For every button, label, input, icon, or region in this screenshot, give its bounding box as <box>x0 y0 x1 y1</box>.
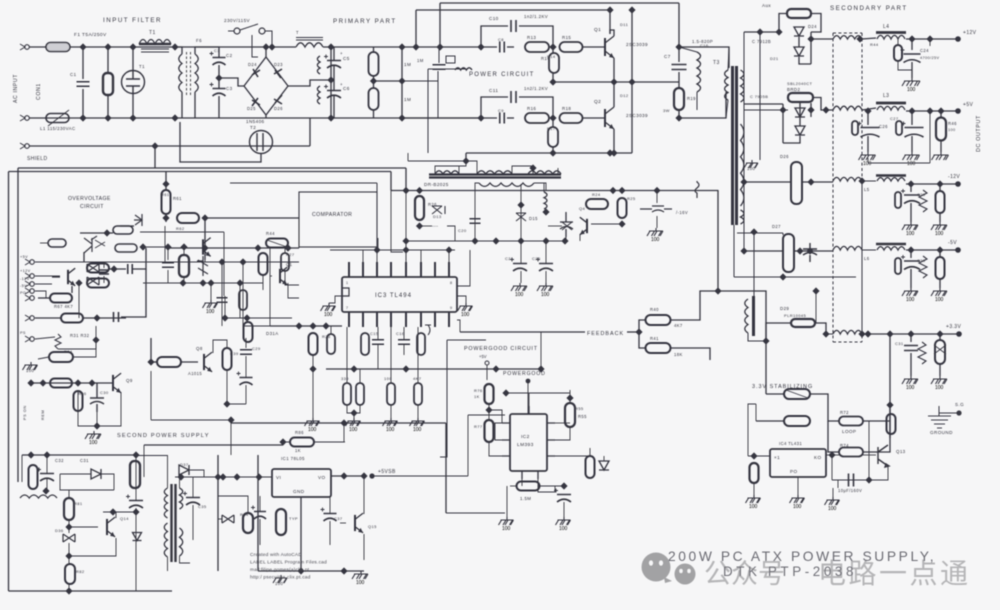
wire C41 gnd <box>867 136 869 152</box>
output +3.3V terminal <box>956 331 962 337</box>
winding T3 sec1 <box>741 70 744 102</box>
resistor R65 box <box>115 244 137 252</box>
wire D35 wires <box>60 473 91 475</box>
svg-text:PLR10045: PLR10045 <box>784 313 806 318</box>
wire Q1 collector feed <box>609 10 611 34</box>
wire T4 sec top <box>179 477 181 488</box>
wire R58 bot <box>183 277 185 283</box>
svg-text:T1: T1 <box>149 30 156 36</box>
svg-text:REM: REM <box>41 410 45 420</box>
wire c37b <box>329 521 331 545</box>
winding L4 <box>877 35 905 39</box>
ground -5V b <box>931 288 947 303</box>
wire y420 row <box>151 419 231 421</box>
svg-text:T2: T2 <box>250 125 256 130</box>
svg-text:IC1 78L05: IC1 78L05 <box>281 456 305 461</box>
node y369 d <box>537 365 544 372</box>
svg-text:100: 100 <box>793 504 802 510</box>
node y110 x783 <box>779 106 786 113</box>
label pin9 <box>450 306 452 310</box>
diode DA mark <box>425 325 431 335</box>
svg-text:R13: R13 <box>527 35 536 40</box>
wire T3 primary top <box>728 47 729 70</box>
wire top rail y3 <box>440 2 679 4</box>
label -5V <box>948 240 957 246</box>
resistor R40 <box>646 315 671 325</box>
wire bridge top to rail <box>265 47 267 57</box>
label v47 <box>240 512 249 517</box>
svg-text:IC4 TL431: IC4 TL431 <box>779 441 802 446</box>
label R44 <box>266 231 275 236</box>
node C11 left <box>477 114 484 121</box>
svg-text:R62: R62 <box>176 226 185 231</box>
wire R67 right <box>71 286 73 293</box>
svg-text:18K: 18K <box>674 352 683 357</box>
logo WeChat watermark <box>642 553 696 585</box>
label v21 <box>917 258 926 263</box>
wire R73 right <box>755 404 757 421</box>
node y455 b <box>43 451 50 458</box>
node y251 x744 <box>740 247 747 254</box>
wire row5 entry <box>826 333 833 335</box>
winding T4 sec b <box>180 528 183 556</box>
wire R14 top <box>552 47 554 53</box>
label KO pin <box>814 455 821 460</box>
node x113 y512 <box>109 508 116 515</box>
wire y241 link2 <box>406 240 475 242</box>
resistor R45b <box>259 253 268 275</box>
svg-text:230V/115V: 230V/115V <box>224 18 251 23</box>
wire R17 bottom <box>552 147 554 153</box>
label C2 <box>226 53 233 58</box>
choke core bars <box>296 38 323 41</box>
node C41 <box>864 107 871 114</box>
wire rail drop x440 <box>439 3 441 47</box>
svg-text:L1 115/230VAC: L1 115/230VAC <box>40 126 76 131</box>
winding T1b right <box>195 54 198 92</box>
wire shield <box>29 145 310 147</box>
wire T5 top <box>753 232 755 296</box>
node +5V b <box>926 107 933 114</box>
svg-text:L6: L6 <box>864 256 870 261</box>
node x69 y591 <box>65 587 72 594</box>
wire y251 right <box>794 250 833 252</box>
wire C50 right <box>133 248 146 269</box>
box powergood outline <box>440 340 486 457</box>
wire TH1 top lead <box>132 47 134 71</box>
wire x869 col <box>868 421 870 480</box>
wire R39 bot <box>226 370 228 404</box>
wire Q10 link <box>83 252 85 262</box>
wire x313 col <box>312 369 314 418</box>
svg-text:100: 100 <box>749 504 758 510</box>
zener D36 <box>63 534 75 542</box>
wire pg dot to IC2 <box>527 381 529 414</box>
wire C7 top lead <box>678 47 680 62</box>
label D27 <box>772 224 781 229</box>
node powergood dot <box>526 379 531 384</box>
node y326 b <box>309 322 316 329</box>
resistor R41 <box>646 343 671 353</box>
wire pin stub a <box>362 250 364 262</box>
wire D30 wire <box>120 225 134 227</box>
resistor R mini row2a <box>852 121 858 135</box>
svg-text:AC INPUT: AC INPUT <box>13 74 19 103</box>
inductor L4 <box>876 31 906 34</box>
node -12V a <box>907 180 914 187</box>
wire y383 row <box>31 382 113 384</box>
wire ic2 bot pin2 <box>538 479 564 492</box>
label R86 <box>295 430 304 435</box>
svg-text:100: 100 <box>907 87 916 93</box>
wire T1a bottom <box>181 92 183 118</box>
wire c15b <box>377 344 379 369</box>
wire r27 b <box>285 271 299 285</box>
label R13 <box>527 35 536 40</box>
node y262 b <box>239 258 246 265</box>
svg-text:100: 100 <box>324 312 333 318</box>
node y241 a <box>471 237 478 244</box>
svg-text:R72: R72 <box>840 410 849 415</box>
wire R33 wire <box>35 337 55 339</box>
label v4 <box>340 82 343 87</box>
wire D35 right <box>101 474 114 490</box>
winding L2 row3 <box>833 177 862 181</box>
capacitor C35 <box>183 492 200 506</box>
resistor R61 <box>162 190 171 214</box>
svg-text:+3.3V: +3.3V <box>946 324 961 330</box>
label pin8 <box>450 281 452 285</box>
svg-text:×1: ×1 <box>774 455 780 460</box>
svg-text:2SC3039: 2SC3039 <box>626 113 648 118</box>
node y182 x744 <box>740 178 747 185</box>
wire c29 w <box>245 338 247 348</box>
wire c15 <box>377 327 379 339</box>
node y334 x940 <box>936 330 943 337</box>
svg-text:FEEDBACK: FEEDBACK <box>587 331 624 337</box>
wire R76 R77 <box>488 404 490 420</box>
svg-text:L5: L5 <box>864 187 870 192</box>
zener D38 <box>222 515 234 523</box>
output +5V terminal <box>955 108 961 114</box>
label R41 <box>650 336 659 341</box>
wire loop q9 <box>78 392 121 426</box>
resistor R85 <box>276 509 286 535</box>
svg-text:R28: R28 <box>322 334 331 339</box>
svg-text:SECONDARY PART: SECONDARY PART <box>830 5 908 12</box>
wire R14 bottom <box>552 73 554 82</box>
wire R41 left <box>639 332 645 348</box>
node R55 mid <box>566 394 573 401</box>
svg-text:C 7912B: C 7912B <box>752 39 771 44</box>
label pin PG <box>20 291 26 295</box>
resistor R66 <box>48 239 66 247</box>
wire ra gnd <box>353 413 355 418</box>
node R62 right <box>201 214 208 221</box>
wire ra top <box>346 327 348 383</box>
svg-text:C2: C2 <box>226 53 233 58</box>
svg-text:100: 100 <box>651 237 660 243</box>
wire y393 row <box>506 392 570 394</box>
svg-text:ˉˉˉˉ: ˉˉˉˉ <box>430 226 438 232</box>
pin +5V powergood <box>485 361 489 365</box>
label D25 <box>247 106 256 111</box>
svg-text:T: T <box>296 30 299 35</box>
wire R77 bot <box>489 442 502 456</box>
svg-text:Q4: Q4 <box>579 206 586 211</box>
label v17 <box>890 116 899 121</box>
wire IC1 in <box>258 476 272 478</box>
wire C10 loop right <box>519 26 553 47</box>
ground rc <box>383 418 398 433</box>
resistor R74 <box>839 448 863 457</box>
wire row2 leftw <box>821 109 833 111</box>
svg-text:C16: C16 <box>396 331 405 336</box>
node y251 x800 <box>796 247 803 254</box>
label R76 <box>474 388 483 393</box>
wire c36 <box>259 496 261 511</box>
svg-text:200W PC ATX POWER SUPPLY,: 200W PC ATX POWER SUPPLY, <box>668 549 936 564</box>
fuse FP jumper <box>695 181 699 198</box>
svg-text:100: 100 <box>906 297 915 303</box>
node x218 y477 <box>214 473 221 480</box>
svg-text:C31: C31 <box>80 458 89 463</box>
resistor R86 <box>290 438 314 447</box>
wire 5vsb to right <box>372 475 468 477</box>
label Q2 <box>594 99 601 105</box>
wire tap ext <box>402 80 438 82</box>
wire C47 gnd <box>910 353 912 376</box>
resistor R59 <box>244 322 253 342</box>
label T1 <box>149 30 156 36</box>
inductor L6 <box>876 243 906 246</box>
output -12V terminal <box>955 181 961 187</box>
transistor Q2 power <box>605 107 614 129</box>
wire x22 col <box>21 455 23 482</box>
label v40 <box>230 351 239 356</box>
label pin +12V <box>20 269 31 273</box>
wire x868 drop <box>867 158 869 163</box>
svg-text:2SC3039: 2SC3039 <box>626 42 648 47</box>
wire C1 bottom lead <box>82 89 84 118</box>
label gnd r34 <box>26 368 34 373</box>
node x136 y512 <box>132 508 139 515</box>
label PRIMARY PART <box>333 18 397 25</box>
node y47 x679 <box>675 43 682 50</box>
wire T4 sec mid <box>180 556 191 563</box>
node rail-402 <box>398 43 405 50</box>
wire x218 col <box>217 455 219 571</box>
wire y277 bus <box>734 276 856 278</box>
resistor R46 <box>936 118 946 141</box>
svg-text:/-16V: /-16V <box>676 210 688 215</box>
wire r57 left <box>510 485 516 487</box>
label pin -12V <box>20 277 30 281</box>
label VI <box>276 475 281 480</box>
wire ovp bus <box>164 226 166 262</box>
capacitor C16 <box>398 340 410 345</box>
label R19 <box>687 96 696 101</box>
resistor R72 <box>839 417 863 426</box>
box comparator outline <box>299 192 377 247</box>
wire R46 lead <box>940 111 942 118</box>
wire y232 upper <box>140 231 224 233</box>
resistor R36 <box>74 391 83 411</box>
label v10 <box>620 22 629 27</box>
node y369 c <box>492 365 499 372</box>
svg-text:R19: R19 <box>687 96 696 101</box>
wire x489 to IC2 <box>489 410 502 423</box>
wire Q1 collector <box>610 30 614 36</box>
svg-text:R34: R34 <box>64 349 73 354</box>
transistor Q11 <box>68 268 75 286</box>
IC3 notch <box>342 288 349 296</box>
wire r57 right <box>540 485 564 487</box>
resistor R34 <box>49 352 73 362</box>
wire bottom border <box>9 590 173 592</box>
winding input choke standby <box>20 495 57 498</box>
wire c16b <box>403 344 405 355</box>
node x832 y455 <box>828 451 835 458</box>
node y291 x816 <box>812 287 819 294</box>
svg-text:1K: 1K <box>474 394 480 399</box>
winding L2 row4 <box>833 246 862 250</box>
node y247 b <box>164 243 171 250</box>
capacitor C31a <box>237 372 253 386</box>
svg-text:100: 100 <box>935 297 944 303</box>
label R86v <box>295 448 301 453</box>
node +5V a <box>908 107 915 114</box>
svg-text:R40: R40 <box>650 307 659 312</box>
capacitor C11 <box>511 91 516 103</box>
wire d37 out <box>189 470 204 477</box>
svg-text:C26: C26 <box>879 124 888 129</box>
node y383 d <box>88 379 95 386</box>
node C10 left <box>477 43 484 50</box>
wire shield drop <box>154 146 156 168</box>
wire R40 right <box>671 291 718 320</box>
svg-text:+5V: +5V <box>479 354 487 359</box>
label D26 <box>274 106 283 111</box>
resistor R49 <box>936 191 945 213</box>
svg-text:C29: C29 <box>917 192 926 197</box>
wire C1 top lead <box>82 47 84 79</box>
wire R86 right <box>314 441 345 443</box>
resistor R71 hatch <box>786 390 808 398</box>
wire x783 col <box>782 104 784 143</box>
label SBL2040 <box>787 81 813 86</box>
wire R45 gnd <box>898 61 912 70</box>
wire ic2 right link <box>555 422 570 424</box>
label D15 <box>529 216 538 221</box>
wire IC4 in <box>748 455 770 457</box>
label R72 <box>840 410 849 415</box>
svg-text:C20: C20 <box>458 228 467 233</box>
svg-text:INPUT FILTER: INPUT FILTER <box>103 17 162 24</box>
wire x811 col <box>810 32 812 64</box>
label v19 <box>864 256 870 261</box>
node y477 t4 <box>177 473 184 480</box>
node neut-TH <box>129 114 136 121</box>
wire C41 lead <box>867 111 869 125</box>
capacitor C47 <box>904 346 918 351</box>
node pg top <box>502 389 509 396</box>
wire T1b bottom <box>194 92 196 118</box>
svg-text:4K7: 4K7 <box>674 323 683 328</box>
wire pc box left <box>427 69 429 153</box>
svg-text:-5V: -5V <box>948 240 957 246</box>
svg-text:C31: C31 <box>895 341 904 346</box>
wire x222 col <box>221 262 223 326</box>
svg-text:D24: D24 <box>808 24 817 29</box>
svg-text:SHIELD: SHIELD <box>27 156 47 162</box>
label R14 <box>541 56 550 61</box>
IC3 TL494 box <box>342 277 457 312</box>
svg-text:C8: C8 <box>498 37 504 42</box>
label C29 <box>252 346 261 351</box>
label F1 T5A/250V <box>74 32 107 38</box>
transformer T4 core <box>172 484 176 562</box>
wire selector right <box>265 31 272 47</box>
winding T3 sec2 <box>741 124 744 206</box>
wire box to ic3 <box>377 238 379 250</box>
node R69 right <box>93 314 100 321</box>
label SHIELD <box>27 156 47 162</box>
node -12V b <box>936 180 943 187</box>
wire pin stub b <box>376 250 378 262</box>
svg-text:1M: 1M <box>417 58 424 63</box>
wire y110 rail <box>744 109 788 111</box>
node x151 y362 <box>147 358 154 365</box>
label L3 <box>883 93 889 99</box>
ground Q9 <box>85 431 101 446</box>
svg-text:LOOP: LOOP <box>842 429 856 434</box>
node y32 x779 <box>775 28 782 35</box>
regulator IC4 box <box>770 449 826 477</box>
svg-text:C11: C11 <box>489 88 498 93</box>
diode D13 cluster <box>432 206 445 214</box>
node y334 x890 <box>886 330 893 337</box>
resistor R27 <box>281 253 289 271</box>
wire R38 left <box>151 361 157 363</box>
ground mid 211 <box>203 300 218 315</box>
svg-text:PRIMARY PART: PRIMARY PART <box>333 18 397 25</box>
svg-text:R84: R84 <box>240 512 249 517</box>
label IC4 TL431 <box>779 441 802 446</box>
label v30 <box>433 214 442 219</box>
wire c35 <box>192 477 194 497</box>
wire R45 lead <box>897 39 899 45</box>
wire AC live top <box>29 46 46 48</box>
label 100 y575 <box>275 581 283 586</box>
wire q6 em <box>288 283 299 298</box>
label R74 <box>840 443 849 448</box>
label R41v <box>674 352 683 357</box>
wire feedback to ic3 <box>457 320 460 332</box>
svg-text:A1015: A1015 <box>188 371 202 376</box>
resistor R45 <box>894 45 902 61</box>
capacitor C29 <box>240 350 252 355</box>
label T3 <box>713 60 720 66</box>
capacitor C5 plates <box>324 55 341 69</box>
label SECONDARY PART <box>830 5 908 12</box>
wire x151 col2 <box>150 371 152 420</box>
svg-text:+5V: +5V <box>963 102 974 108</box>
connector CON1 pin N <box>20 115 29 121</box>
wire x832 drop <box>831 455 833 480</box>
resistor R38 <box>157 357 181 367</box>
wire q cluster <box>78 283 80 318</box>
